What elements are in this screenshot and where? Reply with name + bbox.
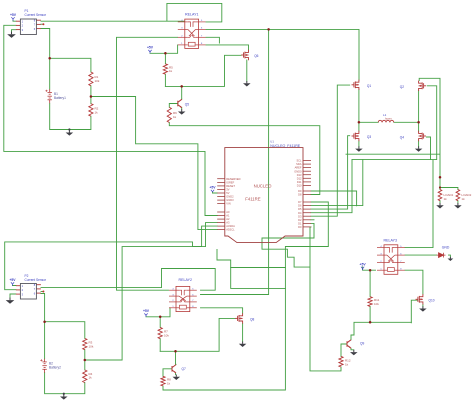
svg-text:P1: P1: [25, 9, 29, 13]
relay RELAY2: [169, 286, 197, 311]
ground Q4 source: [415, 146, 423, 151]
wire R8 top to Q7 base: [163, 369, 172, 377]
mosfet Q1: [352, 80, 359, 90]
wire P1 pin5 to battery1 top node: [41, 29, 50, 59]
inductor L1 horn: [378, 120, 394, 122]
svg-text:+5V: +5V: [209, 186, 216, 190]
svg-text:Q6: Q6: [254, 54, 258, 58]
svg-text:Battery2: Battery2: [49, 366, 61, 370]
battery B1: [45, 89, 52, 103]
junction H-bridge node B: [417, 121, 420, 124]
svg-text:6: 6: [34, 27, 36, 31]
svg-text:B2: B2: [49, 362, 53, 366]
svg-text:GND2: GND2: [226, 195, 234, 199]
resistor R3 10k: [83, 338, 87, 349]
svg-text:R2: R2: [95, 107, 99, 111]
wire Q7 collector node to Q8 gate: [160, 318, 235, 351]
resistor R12 1k: [339, 356, 343, 367]
svg-text:F411RE: F411RE: [245, 196, 261, 201]
IC P2 current sensor: [16, 285, 41, 294]
ground LOAD2: [454, 203, 462, 208]
svg-text:Q2: Q2: [400, 85, 404, 89]
junction LOAD feed upper: [439, 176, 442, 179]
svg-text:D6: D6: [298, 204, 302, 208]
ground Q10 source: [419, 306, 427, 311]
svg-text:2: 2: [22, 24, 24, 28]
svg-text:R6: R6: [173, 111, 177, 115]
svg-text:U1: U1: [270, 140, 274, 144]
wire MCU D5 to Q3 gate: [311, 136, 350, 209]
wire battery1 top node to R1: [50, 58, 91, 72]
wire Q4 source to ground: [418, 141, 420, 146]
wire battery1 leads: [50, 58, 91, 129]
wire LOAD feed tee: [440, 177, 458, 189]
wire RELAY3 pin8 to Q10 drain: [405, 270, 423, 294]
ground Q5 emitter: [178, 109, 186, 114]
svg-text:1: 1: [22, 19, 24, 23]
svg-text:3: 3: [22, 292, 24, 296]
wire P1 pin2 output to MCU pin A1 (left edge route): [4, 25, 217, 215]
wire Q5 collector node to Q6 gate: [165, 55, 241, 86]
junction battery1 top node: [48, 57, 51, 60]
relay RELAY3: [377, 245, 405, 274]
svg-text:B1: B1: [54, 92, 58, 96]
svg-text:10k: 10k: [374, 302, 379, 306]
wire A-side staircase to R8 bus: [217, 250, 285, 268]
svg-text:A4SDA: A4SDA: [226, 224, 235, 228]
wire Q7 collector stub: [175, 351, 178, 364]
wire MCU D7 staircase to R8 to Q7 base (long bottom run): [163, 202, 328, 390]
svg-text:P2: P2: [25, 274, 29, 278]
svg-text:1k: 1k: [461, 197, 465, 201]
wire RELAY3 pin6 to flyback diode to ground: [405, 255, 450, 257]
wire MCU D1 staircase to RELAY2 arch node: [262, 223, 314, 267]
svg-text:D1: D1: [298, 222, 302, 226]
svg-text:hown: hown: [385, 116, 392, 120]
wire RELAY1 pin8 to Q6 drain: [206, 45, 249, 50]
svg-text:R1: R1: [95, 75, 99, 79]
svg-text:RESERVED: RESERVED: [226, 177, 240, 181]
svg-text:1k: 1k: [167, 381, 171, 385]
mosfet Q2 mirrored: [419, 81, 426, 91]
wire R3 to divider2 node to R4: [84, 350, 86, 370]
junction +5V rail relay3: [369, 269, 372, 272]
wire battery2 node to R3: [45, 322, 85, 339]
svg-text:1k: 1k: [345, 362, 349, 366]
wire R1 to divider node: [90, 86, 92, 104]
svg-text:A0: A0: [226, 210, 230, 214]
wire +5V rail to RELAY1 pin1: [150, 45, 178, 53]
no-connect P2 pin7: [41, 291, 43, 293]
svg-text:NUCLEO_F411RE: NUCLEO_F411RE: [270, 144, 300, 148]
svg-text:D4: D4: [298, 211, 302, 215]
resistor R4 1k: [83, 370, 87, 383]
svg-text:D8: D8: [298, 193, 302, 197]
svg-text:A3: A3: [226, 221, 230, 225]
svg-text:3V: 3V: [226, 188, 229, 192]
relay RELAY1: [178, 19, 206, 48]
junction H-bridge node A: [358, 121, 361, 124]
svg-text:+5V: +5V: [360, 263, 367, 267]
wire H-bridge center node rail with inductor: [359, 121, 419, 123]
mosfet Q3: [352, 131, 359, 141]
wire Q7 emitter to ground: [175, 373, 177, 375]
svg-text:Q3: Q3: [367, 135, 371, 139]
MCU left pin stubs and labels: [217, 179, 225, 230]
svg-text:R8: R8: [167, 378, 171, 382]
node divider1 to MCU A5SCL: [91, 97, 217, 230]
wire Q9 emitter to ground: [351, 348, 354, 350]
wire P1 pin3 to ground: [12, 30, 16, 32]
svg-text:1k: 1k: [95, 110, 99, 114]
ground Q3 source: [355, 146, 363, 151]
svg-text:2: 2: [22, 288, 24, 292]
wire +5V rail to RELAY2 pin1: [146, 308, 170, 317]
wire Q9 collector rail to Q10 region: [351, 322, 411, 340]
wire Q5 emitter to ground: [181, 107, 183, 109]
junction Q7 collector node: [174, 350, 177, 353]
resistor R8 1k: [161, 376, 165, 386]
wire R5 pullup leads: [164, 53, 166, 86]
wire +5V to RELAY3 pin1: [363, 267, 376, 270]
resistor R7 10k: [158, 327, 162, 338]
wire RELAY1 pin6 to H-bridge +batt rail and Q1 drain: [206, 29, 359, 80]
svg-text:A1: A1: [226, 214, 230, 218]
svg-text:GND: GND: [442, 246, 450, 250]
junction battery2 top node: [43, 320, 46, 323]
junction LOAD feed lower: [439, 186, 441, 188]
svg-text:+5V: +5V: [9, 278, 16, 282]
svg-text:7: 7: [34, 23, 36, 27]
node divider2 to MCU A3: [85, 223, 217, 360]
svg-text:D7: D7: [298, 200, 302, 204]
resistor R6 1k: [167, 107, 171, 122]
svg-text:RESET: RESET: [226, 184, 235, 188]
ground at P1: [7, 32, 16, 38]
transistor Q9 npn: [347, 340, 351, 348]
wire RELAY1 pin7 stub: [206, 37, 219, 43]
svg-text:A5SCL: A5SCL: [226, 228, 235, 232]
wire P2 pin5 to RELAY2 arch to pin5: [41, 269, 215, 291]
wire MCU D0 through R12 to Q9 base: [310, 227, 347, 371]
wire junction relay1 contact down to RELAY2 pin6 (crosses MCU): [201, 29, 269, 294]
junction battery1 ground: [68, 128, 70, 130]
svg-text:R7: R7: [164, 330, 168, 334]
wire Q1 source to node: [358, 89, 360, 131]
svg-text:VIN: VIN: [226, 202, 230, 206]
svg-text:Battery1: Battery1: [54, 96, 66, 100]
svg-text:R11: R11: [374, 298, 380, 302]
resistor R5 1k: [163, 64, 167, 74]
wire MCU D9 extension: [311, 191, 357, 206]
IC U1 NUCLEO_F411RE MCU body: [225, 148, 303, 243]
svg-text:Q9: Q9: [360, 342, 364, 346]
svg-text:AREF: AREF: [295, 166, 302, 170]
svg-text:RELAY1: RELAY1: [185, 13, 199, 17]
svg-text:Q1: Q1: [367, 84, 371, 88]
resistor LOAD2 1k: [456, 190, 460, 201]
wire R11 leads: [369, 270, 371, 322]
svg-text:IOREF: IOREF: [226, 181, 234, 185]
wire +5V to P2 pin1: [13, 284, 16, 286]
wire Q10 source to ground: [422, 305, 424, 307]
junction +5V rail relay1: [164, 52, 167, 55]
svg-text:Q10: Q10: [429, 299, 435, 303]
svg-text:+5V: +5V: [147, 46, 154, 50]
wire MCU D4 to gate rail 2: [311, 160, 352, 213]
ground at P2: [6, 298, 15, 304]
wire P2 pin6 to battery2 top node: [41, 294, 45, 322]
svg-text:Current Sensor: Current Sensor: [25, 278, 48, 282]
svg-text:6: 6: [34, 291, 36, 295]
ground LOAD1: [436, 203, 444, 208]
transistor Q7 npn: [172, 365, 176, 373]
wire P1 pin1 (+5V sensor supply) to RELAY1 pin4 with arch to pin5: [41, 3, 222, 22]
svg-text:D11: D11: [297, 180, 302, 184]
junction relay1 contact bus: [267, 28, 270, 31]
ground after diode: [448, 257, 454, 261]
svg-text:D13: D13: [297, 173, 302, 177]
wire gate rail 2 Q2 Q4 gates to RELAY3 pin5: [352, 86, 437, 248]
svg-text:SCL: SCL: [296, 159, 302, 163]
wire Q10 gate down to Q9 collector rail: [411, 300, 417, 323]
ground Q9 emitter: [350, 350, 358, 355]
wire R7 pullup leads: [159, 317, 161, 352]
svg-text:+5V: +5V: [10, 13, 17, 17]
wire RELAY2 pin8 to Q8 drain: [201, 308, 243, 313]
svg-text:RELAY3: RELAY3: [384, 239, 398, 243]
svg-text:3: 3: [22, 28, 24, 32]
IC P1 current sensor: [16, 20, 41, 29]
svg-text:5V: 5V: [226, 191, 229, 195]
ground battery1 rail: [66, 130, 74, 135]
MCU right pin stubs and labels: [303, 161, 311, 227]
svg-text:LOAD2: LOAD2: [461, 193, 471, 197]
wire P2 pin3 to ground: [10, 294, 16, 298]
junction divider1 node: [90, 95, 93, 98]
wire MCU D2 stub: [311, 219, 314, 221]
svg-text:10k: 10k: [89, 344, 94, 348]
svg-text:D12: D12: [297, 176, 302, 180]
resistor R1 10k: [89, 72, 93, 86]
svg-text:LOAD1: LOAD1: [444, 193, 454, 197]
svg-text:Q5: Q5: [185, 102, 189, 106]
svg-text:1k: 1k: [89, 376, 93, 380]
transistor Q5 npn: [178, 99, 182, 107]
wire H-bridge lower rail 1 with Q2 drain arch to LOAD node: [346, 78, 440, 177]
svg-text:GND0: GND0: [294, 169, 302, 173]
svg-text:Q4: Q4: [400, 136, 404, 140]
wire LOAD grounds: [440, 201, 458, 203]
wire battery2 leads: [45, 322, 85, 394]
svg-text:NUCLEO: NUCLEO: [254, 183, 273, 188]
svg-text:D10: D10: [297, 184, 302, 188]
wire Q6 source to ground: [246, 60, 248, 81]
svg-text:1k: 1k: [444, 197, 448, 201]
svg-text:D5: D5: [298, 207, 302, 211]
mosfet Q6: [241, 50, 248, 60]
wire Q3 source to ground: [358, 141, 360, 146]
wire Q2 source to node, Q4 drain: [418, 91, 420, 131]
svg-text:R4: R4: [89, 372, 93, 376]
svg-text:GND3: GND3: [226, 198, 234, 202]
junction R11 bottom node: [369, 321, 372, 324]
wire MCU D3 to Q1 gate: [311, 85, 350, 216]
svg-text:SDA: SDA: [296, 162, 302, 166]
svg-text:D3: D3: [298, 214, 302, 218]
wire Q8 source to ground: [242, 324, 244, 342]
no-connect P1 pin7: [41, 23, 43, 25]
junction divider2 node: [84, 359, 87, 362]
battery B2: [40, 359, 47, 373]
svg-text:1k: 1k: [169, 69, 173, 73]
svg-text:1k: 1k: [173, 115, 177, 119]
svg-text:R3: R3: [89, 341, 93, 345]
svg-text:Q8: Q8: [250, 318, 254, 322]
wire staircase lower branch to R8 bus: [231, 268, 286, 289]
svg-text:10k: 10k: [95, 79, 100, 83]
svg-text:A2: A2: [226, 217, 230, 221]
mosfet Q4 mirrored: [419, 131, 426, 141]
wire P2 pin2 output to MCU A4SDA: [5, 226, 218, 290]
svg-text:+5V: +5V: [143, 309, 150, 313]
svg-text:10k: 10k: [164, 333, 169, 337]
junction battery2 ground: [63, 393, 65, 395]
resistor R11 10k: [368, 297, 372, 307]
wire RELAY1 pin2 to RELAY2 pin4 (long left vertical): [117, 37, 178, 290]
svg-text:R5: R5: [169, 65, 173, 69]
junction +5V rail relay2: [159, 316, 162, 319]
ground battery2 rail: [60, 394, 68, 399]
wire +5V to P1 pin1: [13, 19, 16, 22]
wire Q5 base through R6 to MCU D8: [169, 104, 319, 195]
diode flyback at relay3: [437, 253, 446, 258]
junction Q5 collector node: [180, 85, 183, 88]
resistor R2 1k: [89, 104, 93, 117]
svg-text:D0: D0: [298, 225, 302, 229]
svg-text:7: 7: [34, 287, 36, 291]
ground Q7 emitter: [173, 375, 181, 380]
svg-text:R12: R12: [345, 359, 351, 363]
svg-text:RELAY2: RELAY2: [179, 278, 193, 282]
ground Q6 source: [243, 81, 251, 86]
wire MCU D6 to gate rail 2: [311, 160, 363, 206]
svg-text:D9: D9: [298, 189, 302, 193]
ground Q8 source: [239, 342, 247, 347]
svg-text:1: 1: [22, 284, 24, 288]
svg-text:D2: D2: [298, 218, 302, 222]
mosfet Q10: [416, 294, 423, 304]
svg-text:Current Sensor: Current Sensor: [25, 13, 48, 17]
wire Q5 collector stub: [181, 86, 183, 99]
resistor LOAD1 1k: [438, 190, 442, 201]
svg-text:Q7: Q7: [182, 367, 186, 371]
mosfet Q8: [235, 313, 242, 323]
